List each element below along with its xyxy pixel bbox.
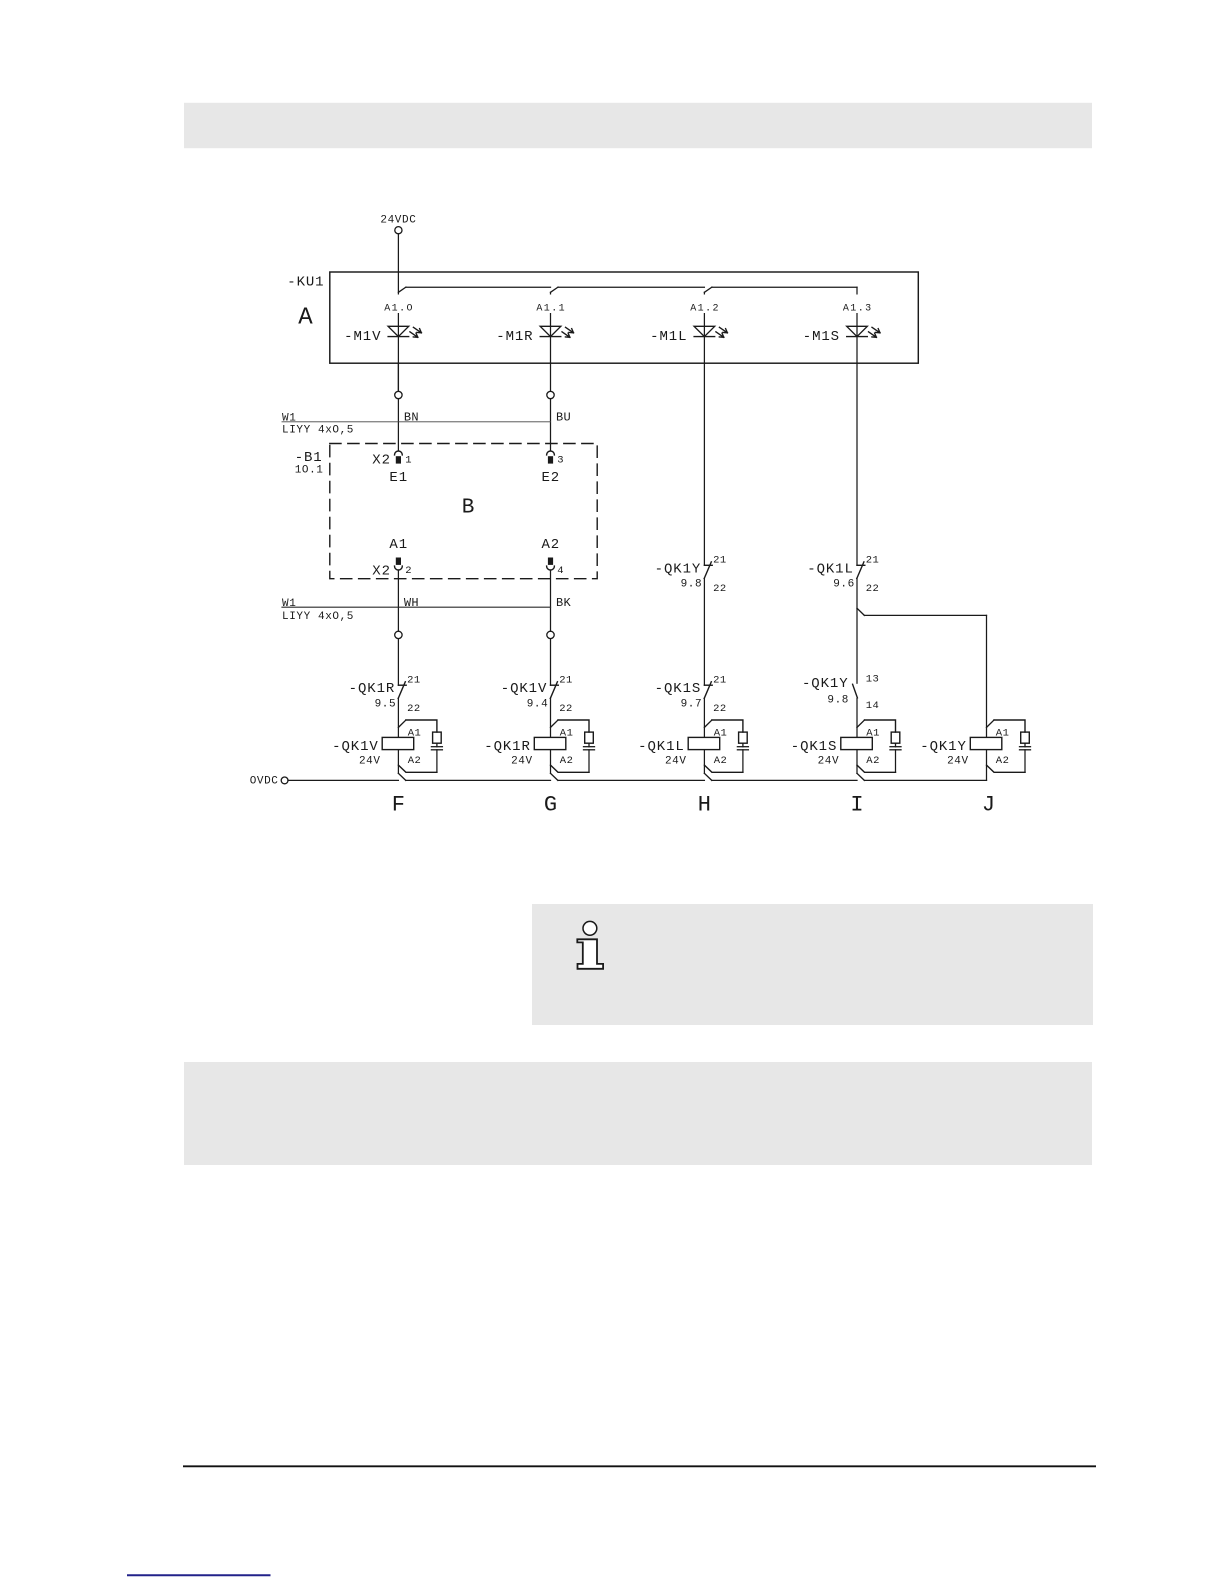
relay coil -QK1V 24V — [382, 737, 414, 749]
svg-text:9.8: 9.8 — [827, 695, 849, 707]
svg-text:22: 22 — [866, 583, 880, 595]
wire G from -KU1 to plug circle — [550, 363, 552, 391]
junction at 0VDC bus — [551, 773, 558, 780]
svg-text:A2: A2 — [996, 755, 1010, 767]
svg-text:W1: W1 — [282, 413, 296, 425]
svg-text:-QK1L: -QK1L — [807, 561, 854, 577]
svg-text:-B1: -B1 — [295, 450, 323, 466]
footer rule — [183, 1465, 1096, 1467]
wire into coil -QK1L — [703, 698, 705, 737]
svg-text:A1.1: A1.1 — [536, 303, 566, 314]
svg-text:BN: BN — [404, 411, 419, 425]
LED -M1R pin A1.1 — [540, 326, 573, 337]
svg-text:X2: X2 — [372, 453, 391, 469]
svg-text:-QK1Y: -QK1Y — [802, 676, 849, 692]
svg-text:13: 13 — [866, 673, 880, 685]
svg-text:X2: X2 — [372, 564, 391, 580]
svg-text:21: 21 — [713, 674, 727, 686]
svg-text:9.8: 9.8 — [681, 579, 703, 591]
wire I between contacts — [856, 579, 858, 684]
svg-text:21: 21 — [866, 554, 880, 566]
wire into coil -QK1S — [856, 698, 858, 737]
contact -QK1Y 21/22 row1 — [704, 562, 712, 579]
suppressor module of -QK1Y — [1021, 732, 1030, 743]
suppressor module of -QK1V — [433, 732, 442, 743]
svg-text:W1: W1 — [282, 598, 296, 610]
wire -KU1 output A1.1 vertical — [550, 292, 552, 363]
svg-text:A2: A2 — [866, 755, 880, 767]
wire suppressor bottom -QK1V — [436, 750, 438, 773]
cable W1 LIYY 4x0,5 lower — [282, 606, 551, 608]
info note box — [532, 904, 1093, 1025]
svg-text:BU: BU — [556, 411, 571, 425]
svg-text:A1.O: A1.O — [384, 303, 414, 314]
svg-text:-QK1V: -QK1V — [501, 681, 548, 697]
svg-text:21: 21 — [559, 674, 573, 686]
svg-text:-M1V: -M1V — [344, 329, 381, 345]
svg-text:24VDC: 24VDC — [380, 215, 416, 227]
pin label A1.2 — [688, 295, 720, 314]
wire coil -QK1L to 0VDC bus — [703, 750, 705, 774]
svg-text:F: F — [392, 793, 405, 818]
svg-text:LIYY 4xO,5: LIYY 4xO,5 — [282, 424, 354, 436]
svg-text:J: J — [982, 793, 995, 818]
svg-text:4: 4 — [557, 565, 564, 577]
wire into coil -QK1R — [550, 698, 552, 737]
svg-text:A: A — [298, 304, 313, 331]
wire F core WH — [397, 570, 399, 631]
contact -QK1V 21/22 row2 — [550, 682, 558, 699]
junction coil -QK1Y A1 tap — [987, 720, 995, 727]
svg-text:G: G — [544, 793, 557, 818]
svg-text:14: 14 — [866, 700, 880, 712]
wire H between contacts — [703, 579, 705, 686]
svg-text:-M1L: -M1L — [650, 329, 687, 345]
junction tap A1.1 — [551, 287, 559, 292]
svg-text:3: 3 — [557, 454, 564, 466]
svg-text:A2: A2 — [541, 537, 560, 553]
svg-text:24V: 24V — [359, 755, 381, 767]
svg-text:-QK1R: -QK1R — [349, 681, 396, 697]
svg-text:22: 22 — [407, 703, 421, 715]
svg-text:22: 22 — [713, 703, 727, 715]
LED -M1V pin A1.O — [388, 326, 421, 337]
plug connection circle G top — [547, 391, 554, 398]
svg-text:24V: 24V — [511, 755, 533, 767]
suppressor module of -QK1S — [891, 732, 900, 743]
svg-text:E2: E2 — [541, 470, 560, 486]
relay coil -QK1S 24V — [841, 737, 873, 749]
wire F core BN — [397, 399, 399, 451]
svg-text:22: 22 — [559, 703, 573, 715]
junction coil -QK1S A1 tap — [857, 720, 865, 727]
pin label A1.1 — [535, 295, 567, 314]
terminal X2:4 (G bottom) — [548, 558, 553, 565]
relay coil -QK1Y 24V — [970, 737, 1002, 749]
contact -QK1L 21/22 row1 — [857, 562, 865, 579]
contact -QK1S 21/22 row2 — [704, 682, 712, 699]
terminal X2:3 (G top) — [547, 451, 555, 455]
wire G to contact — [550, 639, 552, 686]
svg-text:-QK1Y: -QK1Y — [655, 561, 702, 577]
svg-text:A1: A1 — [389, 537, 408, 553]
LED -M1L pin A1.2 — [694, 326, 727, 337]
svg-text:9.7: 9.7 — [681, 699, 703, 711]
contact -QK1Y 13/14 (NO) — [853, 684, 858, 698]
cable W1 LIYY 4x0,5 upper — [282, 421, 551, 423]
wire internal 24V bus of -KU1 — [406, 286, 551, 288]
wire coil -QK1Y to 0VDC bus — [986, 750, 988, 781]
wire suppressor top -QK1L — [712, 720, 743, 732]
wire suppressor bottom -QK1S — [895, 750, 897, 773]
LED -M1S pin A1.3 — [847, 326, 880, 337]
plug connection circle G bottom — [547, 631, 554, 638]
svg-text:9.4: 9.4 — [527, 699, 549, 711]
wire 0VDC bus — [288, 779, 398, 781]
svg-text:LIYY 4xO,5: LIYY 4xO,5 — [282, 611, 354, 623]
svg-text:1: 1 — [405, 454, 412, 466]
wire G core BK — [550, 570, 552, 631]
wire suppressor bottom -QK1Y — [1024, 750, 1026, 773]
wire coil -QK1R to 0VDC bus — [550, 750, 552, 774]
relay coil -QK1L 24V — [688, 737, 720, 749]
info icon — [577, 921, 603, 968]
plug connection circle F top — [395, 391, 402, 398]
svg-text:E1: E1 — [389, 470, 408, 486]
wire suppressor bottom -QK1L — [742, 750, 744, 773]
plug connection circle F bottom — [395, 631, 402, 638]
svg-text:-M1S: -M1S — [803, 329, 840, 345]
wire F from -KU1 to plug circle — [397, 363, 399, 391]
suppressor module of -QK1R — [585, 732, 594, 743]
junction coil -QK1L A1 tap — [704, 720, 712, 727]
svg-text:-M1R: -M1R — [496, 329, 533, 345]
junction at 0VDC bus — [857, 773, 864, 780]
svg-text:-QK1Y: -QK1Y — [920, 739, 967, 755]
wire suppressor top -QK1Y — [994, 720, 1025, 732]
svg-text:24V: 24V — [665, 755, 687, 767]
wire suppressor bottom -QK1R — [588, 750, 590, 773]
junction tap A1.0 — [398, 287, 406, 292]
PLC output card U=-KU1 box — [330, 272, 919, 363]
svg-text:A2: A2 — [714, 755, 728, 767]
svg-text:21: 21 — [407, 674, 421, 686]
wire branch I to J horizontal — [864, 614, 986, 616]
wire coil -QK1V to 0VDC bus — [397, 750, 399, 774]
svg-text:24V: 24V — [818, 755, 840, 767]
svg-text:9.6: 9.6 — [833, 579, 855, 591]
svg-text:1O.1: 1O.1 — [295, 465, 324, 477]
svg-text:B: B — [462, 497, 475, 520]
svg-text:A2: A2 — [408, 755, 422, 767]
wire suppressor top -QK1S — [865, 720, 896, 732]
junction coil -QK1R A1 tap — [551, 720, 559, 727]
wire coil -QK1S to 0VDC bus — [856, 750, 858, 774]
relay coil -QK1R 24V — [534, 737, 566, 749]
junction at 0VDC bus — [704, 773, 711, 780]
junction coil -QK1V A1 tap — [398, 720, 406, 727]
header bar — [184, 103, 1092, 148]
svg-text:24V: 24V — [947, 755, 969, 767]
wire -KU1 output A1.3 vertical — [856, 287, 858, 565]
terminal X2:1 (F top) — [395, 451, 403, 455]
svg-text:21: 21 — [713, 554, 727, 566]
svg-text:H: H — [698, 793, 711, 818]
svg-text:-KU1: -KU1 — [287, 274, 324, 290]
wire suppressor top -QK1V — [406, 720, 437, 732]
svg-text:-QK1S: -QK1S — [791, 739, 838, 755]
wire suppressor top -QK1R — [558, 720, 589, 732]
svg-text:A2: A2 — [560, 755, 574, 767]
svg-text:2: 2 — [405, 565, 412, 577]
svg-text:I: I — [850, 793, 863, 818]
svg-text:-QK1R: -QK1R — [484, 739, 531, 755]
svg-text:9.5: 9.5 — [375, 699, 397, 711]
svg-text:A1.2: A1.2 — [690, 303, 720, 314]
svg-text:OVDC: OVDC — [250, 776, 279, 788]
suppressor module of -QK1L — [739, 732, 748, 743]
wire 24VDC to -KU1 input A1.0 — [397, 234, 399, 391]
junction tap A1.2 — [704, 287, 712, 292]
svg-text:22: 22 — [713, 583, 727, 595]
wire -KU1 output A1.2 vertical — [703, 292, 705, 565]
footer link underline — [127, 1574, 271, 1576]
pin label A1.3 — [841, 295, 873, 314]
pin label A1.O — [382, 295, 414, 314]
notice box — [184, 1062, 1092, 1165]
wire G core BU — [550, 399, 552, 451]
svg-text:-QK1V: -QK1V — [332, 739, 379, 755]
wire into coil -QK1V — [397, 698, 399, 737]
terminal X2:2 (F bottom) — [396, 558, 401, 565]
sensor -B1 dashed box — [330, 444, 597, 579]
svg-text:BK: BK — [556, 596, 572, 610]
wire F to contact — [397, 639, 399, 686]
junction branch to column J — [857, 608, 864, 615]
contact -QK1R 21/22 row2 — [398, 682, 406, 699]
svg-text:-QK1S: -QK1S — [655, 681, 702, 697]
wire J vertical — [986, 615, 988, 737]
junction at 0VDC bus — [398, 773, 405, 780]
svg-text:A1.3: A1.3 — [843, 303, 873, 314]
svg-text:-QK1L: -QK1L — [638, 739, 685, 755]
